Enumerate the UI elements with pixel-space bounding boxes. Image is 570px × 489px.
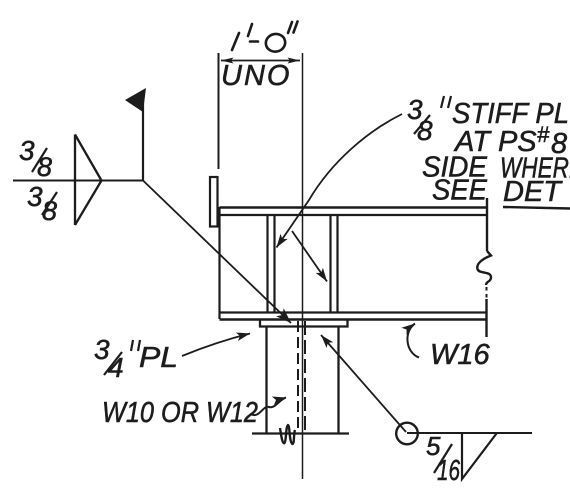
field weld flag [125,88,146,112]
weld size 3/8 above [19,135,52,182]
fillet weld triangle bottom right [462,433,497,479]
leader W10 OR W12 arrow [251,398,286,416]
column break squiggle [280,425,295,444]
beam right break line [477,198,491,337]
column web hidden line left [297,321,299,432]
weld all around circle [396,423,418,445]
leader 3/4 PL arrow [182,334,250,357]
dimension text 1'-0" [232,22,298,54]
note line 3 SIDE WHERE [422,152,570,185]
weld symbol fillet triangle [75,135,102,226]
svg-text:8: 8 [42,196,57,226]
weld size 5/16 [426,431,461,487]
svg-text:DET: DET [503,176,563,208]
column right flange [337,327,339,434]
label 3/4" PL [94,334,178,383]
column web hidden line right [304,321,306,432]
column left flange [265,327,267,434]
svg-text:SEE: SEE [432,175,488,207]
weld leader arrow to flange joint [143,181,291,324]
weld symbol reference line [13,180,143,182]
note leader to right stiffener [292,231,327,282]
note line 4 SEE DET [432,175,563,209]
field weld flag pole [142,92,144,181]
weld size 3/8 below [27,181,57,226]
beam W16 bottom flange [220,313,488,320]
svg-text:16: 16 [437,455,461,487]
svg-text:W10 OR W12: W10 OR W12 [102,397,258,429]
weld all around leader arrow [321,335,406,432]
weld reference line bottom right [407,432,532,434]
note fraction 3/8 [407,94,433,146]
note leader to left stiffener [277,114,403,248]
beam end plate [210,177,218,227]
svg-text:8: 8 [417,115,433,146]
svg-text:UNO: UNO [221,60,291,92]
stiffener plate right [331,215,338,313]
svg-text:4: 4 [108,352,124,383]
dimension line with arrows [221,60,300,62]
centerline [302,53,304,479]
column break line [252,432,349,434]
svg-text:8: 8 [37,152,52,182]
svg-text:3: 3 [27,181,43,212]
cap plate 3/4 inch [260,320,348,327]
note line 1 STIFF PL [441,96,451,108]
svg-text:#: # [537,122,550,147]
leader W16 curved arrow [407,324,419,358]
svg-text:PL: PL [139,342,178,374]
stiffener plate left [268,215,275,313]
beam left end line [218,207,220,319]
note line 2 AT PS#8 [453,122,567,160]
svg-text:W16: W16 [430,339,491,371]
beam W16 top flange [220,208,488,216]
svg-text:3: 3 [19,135,35,166]
underline under DET [503,207,570,209]
extension line left [218,53,220,169]
